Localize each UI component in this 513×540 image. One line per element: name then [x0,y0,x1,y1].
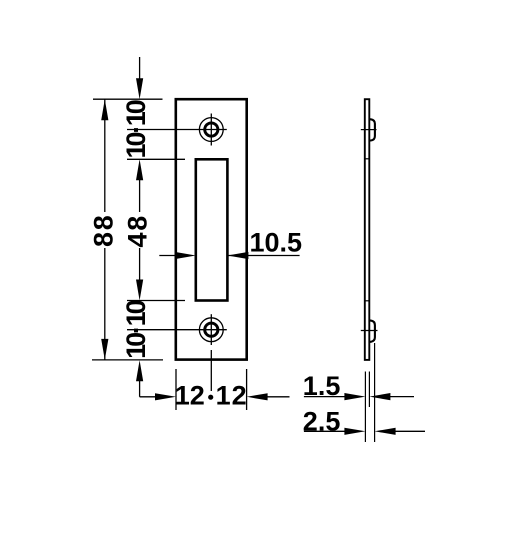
svg-text:10: 10 [121,333,151,359]
svg-text:·: · [121,125,151,134]
svg-text:·: · [121,325,151,334]
svg-text:48: 48 [123,214,153,248]
svg-text:10: 10 [121,100,151,126]
svg-text:10.5: 10.5 [250,228,303,258]
svg-text:10: 10 [121,300,151,326]
svg-text:2.5: 2.5 [303,407,341,437]
svg-text:12: 12 [216,381,248,411]
svg-text:10: 10 [121,133,151,159]
svg-text:12: 12 [175,381,205,411]
svg-text:88: 88 [88,213,118,247]
